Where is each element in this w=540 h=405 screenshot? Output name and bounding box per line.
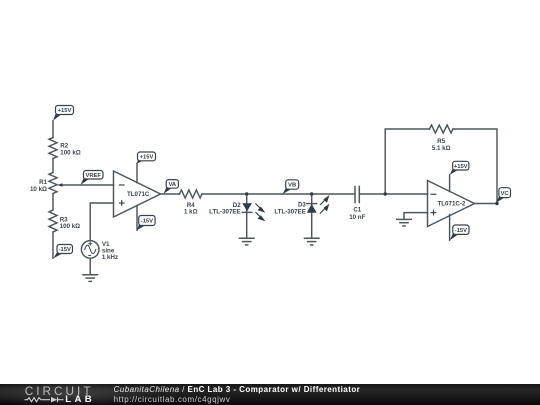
svg-text:VA: VA	[168, 182, 176, 188]
svg-text:TL071C-2: TL071C-2	[438, 201, 466, 208]
svg-text:D3: D3	[298, 201, 306, 208]
svg-text:VC: VC	[501, 191, 510, 197]
svg-text:10 kΩ: 10 kΩ	[30, 186, 47, 193]
svg-text:1 kHz: 1 kHz	[102, 254, 118, 261]
svg-text:10 nF: 10 nF	[349, 214, 365, 221]
svg-text:-15V: -15V	[59, 247, 71, 253]
svg-text:R1: R1	[39, 179, 47, 186]
svg-text:LTL-307EE: LTL-307EE	[209, 209, 241, 216]
svg-text:100 kΩ: 100 kΩ	[60, 223, 80, 230]
svg-text:LAB: LAB	[65, 394, 95, 405]
svg-text:+15V: +15V	[140, 155, 154, 161]
svg-text:+15V: +15V	[58, 108, 72, 114]
svg-text:C1: C1	[353, 207, 361, 214]
svg-text:LTL-307EE: LTL-307EE	[274, 208, 306, 215]
svg-text:5.1 kΩ: 5.1 kΩ	[432, 145, 451, 152]
svg-text:-15V: -15V	[141, 219, 153, 225]
svg-text:VREF: VREF	[85, 173, 101, 179]
svg-text:1 kΩ: 1 kΩ	[184, 209, 198, 216]
svg-text:100 kΩ: 100 kΩ	[60, 149, 80, 156]
svg-text:R5: R5	[437, 138, 445, 145]
svg-text:-15V: -15V	[455, 228, 467, 234]
svg-text:TL071C: TL071C	[127, 191, 150, 198]
svg-text:VB: VB	[288, 183, 296, 189]
svg-text:+15V: +15V	[454, 164, 468, 170]
